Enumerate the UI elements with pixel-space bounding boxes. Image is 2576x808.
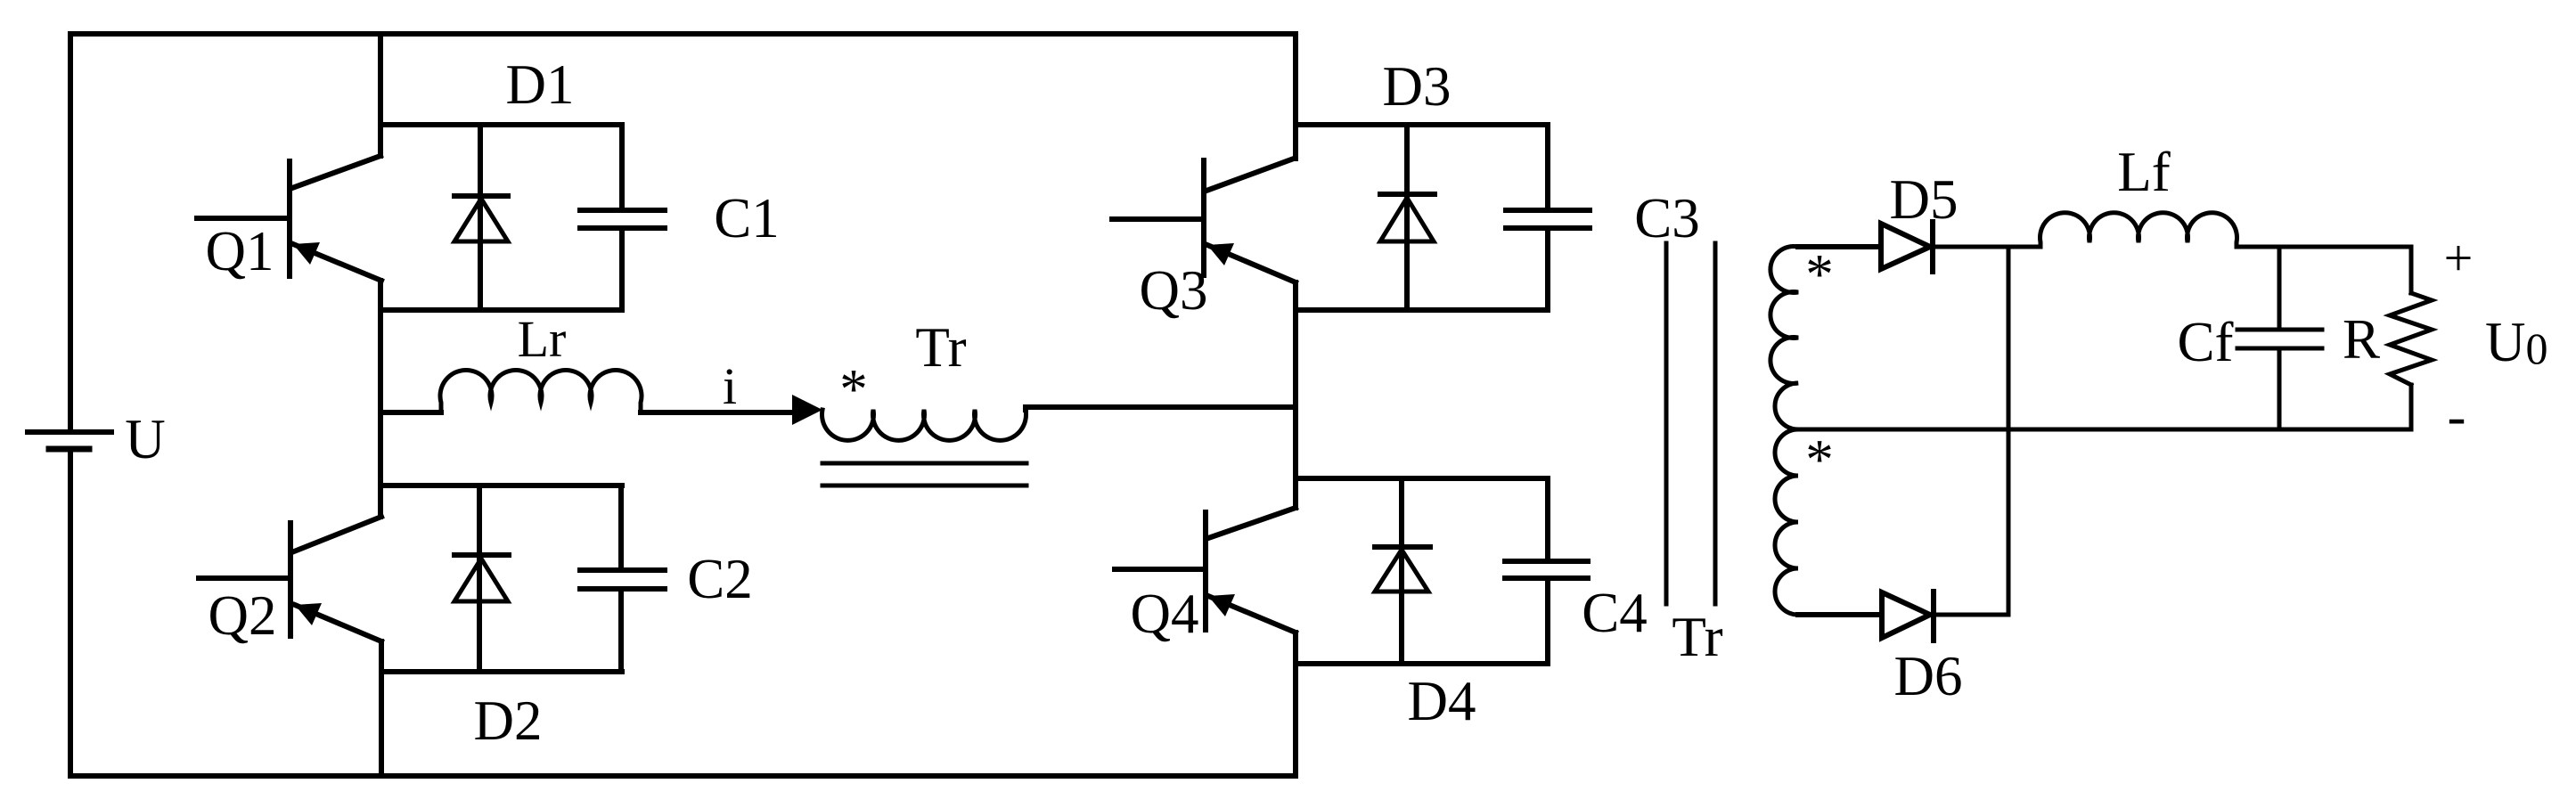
- wire Q4 emitter drop: [1293, 633, 1298, 776]
- svg-text:Q4: Q4: [1131, 583, 1199, 645]
- wire Lf to load: [2237, 245, 2411, 249]
- svg-text:D2: D2: [474, 690, 543, 752]
- wire D1 box bottom: [380, 307, 622, 313]
- wire D2 box top: [381, 483, 622, 488]
- wire Q1 collector drop: [378, 34, 383, 156]
- svg-text:Lr: Lr: [518, 310, 567, 368]
- transistor Q2: [199, 517, 381, 641]
- svg-text:Lf: Lf: [2117, 141, 2170, 203]
- svg-text:R: R: [2343, 308, 2380, 371]
- wire D4 box bottom: [1296, 661, 1548, 666]
- transformer Tr primary core lines: [822, 463, 1026, 486]
- svg-text:Tr: Tr: [1672, 606, 1722, 668]
- diode D2: [454, 486, 509, 672]
- svg-text:i: i: [723, 357, 737, 415]
- svg-text:Q3: Q3: [1140, 259, 1208, 322]
- svg-text:C4: C4: [1582, 582, 1648, 644]
- transformer Tr secondary upper winding: [1770, 247, 1798, 429]
- diode D1: [454, 125, 508, 310]
- capacitor C2: [580, 486, 665, 672]
- inductor Lf: [2040, 213, 2237, 247]
- wire D6 to bus: [1934, 613, 2008, 617]
- wire bus to Lf: [2008, 245, 2040, 249]
- capacitor C3: [1506, 125, 1590, 310]
- svg-text:*: *: [1805, 428, 1834, 491]
- capacitor C1: [580, 125, 665, 310]
- wire rectifier bus: [2007, 247, 2011, 615]
- wire D5 to bus: [1933, 245, 2008, 249]
- svg-text:-: -: [2448, 385, 2466, 447]
- wire D2 box bottom: [381, 669, 622, 674]
- inductor Lr: [440, 370, 642, 412]
- wire D4 box top: [1296, 476, 1548, 481]
- wire center tap to output: [1798, 428, 2411, 432]
- wire left leg middle: [378, 281, 383, 517]
- diode D4: [1375, 478, 1430, 664]
- svg-text:Tr: Tr: [915, 316, 966, 379]
- transformer Tr primary winding: [822, 410, 1026, 440]
- wire right leg middle: [1293, 282, 1298, 508]
- resistor R: [2390, 247, 2432, 429]
- svg-text:C2: C2: [687, 548, 753, 610]
- wire secondary top to D5: [1798, 244, 1880, 249]
- transistor Q4: [1115, 508, 1296, 633]
- wire Lr lead: [380, 410, 441, 415]
- wire bottom rail: [70, 773, 1296, 779]
- wire secondary bottom to D6: [1798, 612, 1880, 617]
- transistor Q1: [197, 156, 381, 281]
- wire current arrow segment: [641, 410, 794, 415]
- wire primary to right leg: [1026, 407, 1296, 410]
- svg-text:D6: D6: [1894, 645, 1963, 707]
- svg-text:D3: D3: [1383, 55, 1452, 118]
- svg-text:U: U: [125, 408, 166, 470]
- svg-text:D5: D5: [1890, 168, 1959, 231]
- diode D6: [1882, 592, 1934, 641]
- wire top rail: [70, 31, 1296, 37]
- svg-text:D1: D1: [506, 53, 575, 116]
- svg-text:Q2: Q2: [209, 584, 277, 647]
- wire left side lower: [68, 449, 73, 776]
- svg-text:C1: C1: [714, 187, 780, 249]
- svg-text:*: *: [839, 358, 868, 420]
- capacitor Cf: [2237, 247, 2322, 429]
- transistor Q3: [1112, 159, 1296, 282]
- wire left side upper: [68, 34, 73, 432]
- svg-text:D4: D4: [1408, 670, 1476, 732]
- svg-text:C3: C3: [1634, 187, 1700, 249]
- wire D3 box bottom: [1296, 307, 1548, 313]
- svg-text:*: *: [1805, 243, 1834, 306]
- transformer Tr secondary core lines: [1666, 243, 1715, 604]
- svg-text:Cf: Cf: [2178, 311, 2234, 373]
- svg-text:Q1: Q1: [206, 220, 274, 282]
- transformer Tr secondary lower winding: [1775, 429, 1798, 615]
- diode D3: [1380, 125, 1435, 310]
- wire Q3 collector drop: [1293, 34, 1298, 159]
- diode D5: [1881, 222, 1933, 272]
- wire D1 box top: [380, 122, 622, 127]
- wire D3 box top: [1296, 122, 1548, 127]
- svg-text:U0: U0: [2485, 311, 2548, 373]
- capacitor C4: [1505, 478, 1588, 664]
- wire Q2 emitter drop: [379, 641, 384, 776]
- svg-text:+: +: [2444, 229, 2474, 287]
- current arrow i: [792, 395, 822, 425]
- battery U: [28, 432, 111, 449]
